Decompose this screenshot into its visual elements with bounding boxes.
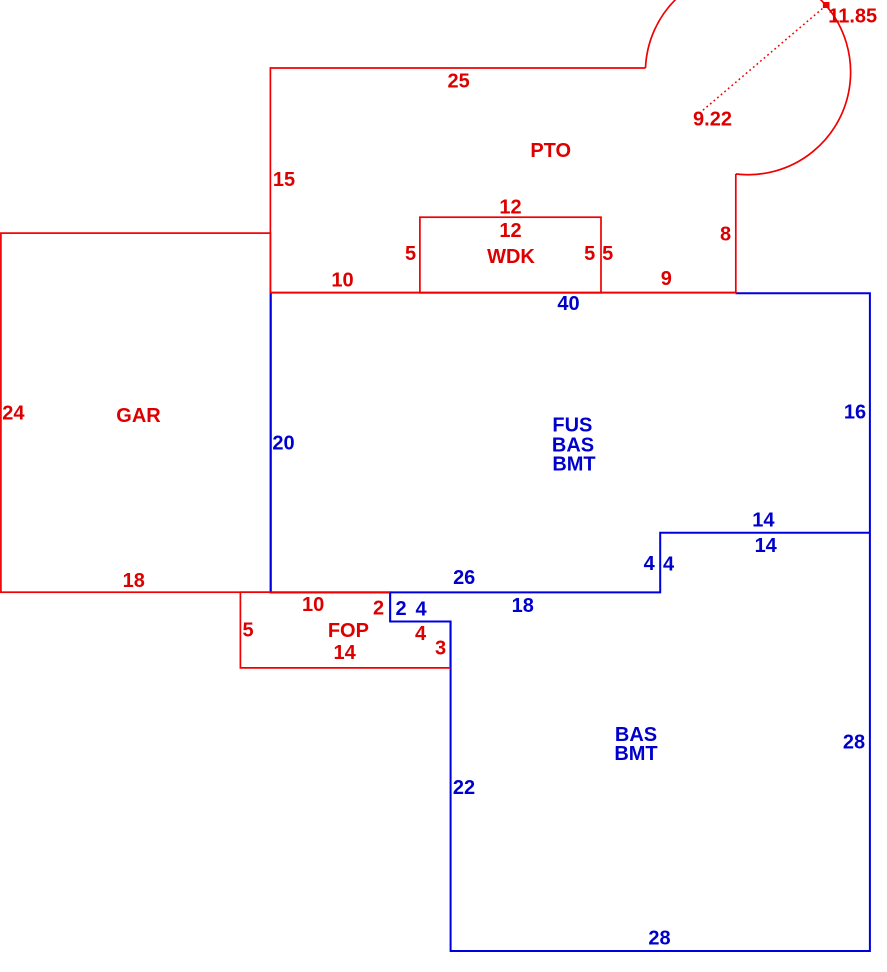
svg-text:25: 25 <box>447 71 469 93</box>
svg-text:4: 4 <box>663 554 675 576</box>
svg-text:2: 2 <box>395 598 406 620</box>
svg-text:40: 40 <box>557 293 579 315</box>
svg-text:5: 5 <box>584 243 595 265</box>
svg-text:12: 12 <box>499 220 521 242</box>
svg-text:28: 28 <box>648 927 670 949</box>
svg-text:18: 18 <box>512 595 534 617</box>
porch FOP notch edges (under blue) <box>390 592 450 668</box>
svg-text:12: 12 <box>499 197 521 219</box>
svg-text:FOP: FOP <box>328 620 369 642</box>
svg-text:BMT: BMT <box>552 454 595 476</box>
svg-text:5: 5 <box>602 243 613 265</box>
svg-text:GAR: GAR <box>116 405 161 427</box>
svg-text:PTO: PTO <box>530 140 571 162</box>
wall PTO right (8) <box>735 174 737 293</box>
svg-text:15: 15 <box>273 169 295 191</box>
garage GAR outline <box>1 233 271 592</box>
svg-text:28: 28 <box>843 732 865 754</box>
svg-text:4: 4 <box>644 553 656 575</box>
svg-text:BMT: BMT <box>614 743 657 765</box>
wall PTO top (25) <box>270 67 646 69</box>
svg-text:24: 24 <box>2 402 25 424</box>
basement outline FUS/BAS/BMT (blue) <box>271 292 870 951</box>
svg-text:14: 14 <box>755 535 778 557</box>
svg-text:22: 22 <box>453 777 475 799</box>
dotted radius line (11.85) <box>701 6 826 112</box>
svg-text:3: 3 <box>435 638 446 660</box>
wall bottom of PTO / top of FUS (10, WDK, 9) red over blue <box>270 292 737 294</box>
divider line 14/4 (blue) <box>390 533 870 593</box>
svg-text:8: 8 <box>720 224 731 246</box>
svg-text:WDK: WDK <box>487 246 535 268</box>
wall PTO curved bay arc <box>646 0 851 175</box>
svg-text:FUS: FUS <box>552 414 592 436</box>
svg-text:14: 14 <box>752 510 775 532</box>
svg-text:20: 20 <box>272 433 294 455</box>
handle square on arc <box>823 2 830 8</box>
svg-text:10: 10 <box>302 594 324 616</box>
svg-text:16: 16 <box>844 402 866 424</box>
svg-text:14: 14 <box>333 642 356 664</box>
svg-text:9.22: 9.22 <box>693 109 732 131</box>
svg-text:4: 4 <box>415 599 427 621</box>
svg-text:5: 5 <box>405 243 416 265</box>
porch FOP outline (red over blue) <box>240 592 450 668</box>
svg-text:4: 4 <box>415 623 427 645</box>
svg-text:26: 26 <box>453 567 475 589</box>
wall PTO left (15) <box>269 68 271 293</box>
svg-text:18: 18 <box>123 570 145 592</box>
svg-text:5: 5 <box>242 620 253 642</box>
svg-text:10: 10 <box>331 270 353 292</box>
deck WDK outline <box>420 217 601 293</box>
svg-text:11.85: 11.85 <box>828 6 877 28</box>
svg-text:2: 2 <box>373 598 384 620</box>
svg-text:9: 9 <box>661 268 672 290</box>
